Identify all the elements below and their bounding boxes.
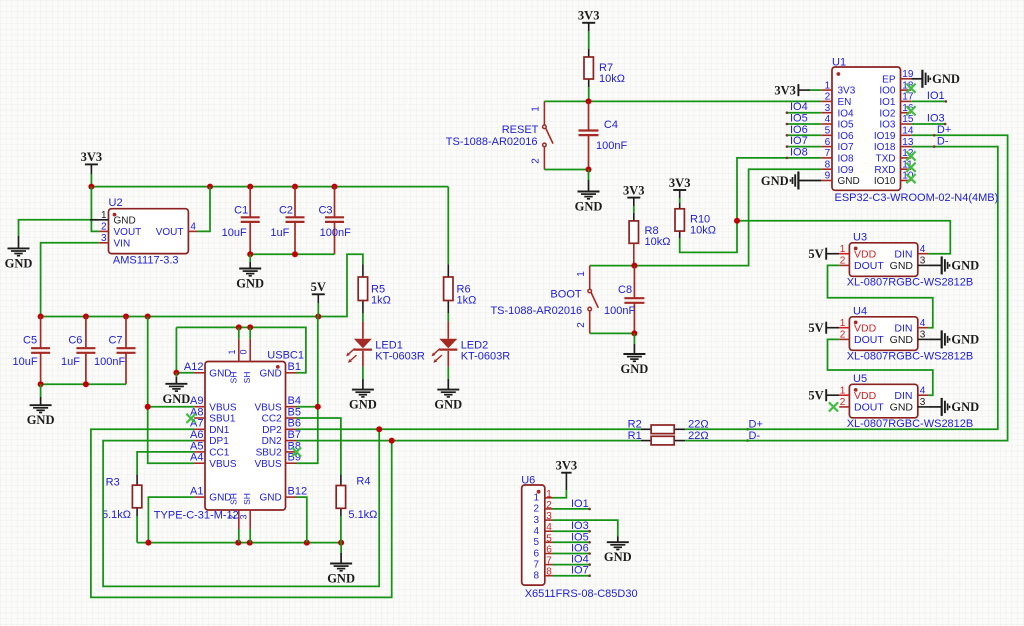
ground GND (C5)	[40, 384, 42, 397]
wire D+ from R2 to U1 IO19	[685, 147, 998, 430]
wire IO9/BOOT net	[634, 169, 821, 265]
svg-text:IO1: IO1	[927, 90, 945, 102]
svg-text:IO5: IO5	[571, 531, 589, 543]
svg-text:2: 2	[840, 397, 846, 408]
wire D+ top segment	[911, 146, 998, 148]
net label IO3 (U6)	[553, 530, 590, 532]
svg-text:CC1: CC1	[209, 448, 229, 459]
wire R8 to BOOT node	[633, 251, 635, 266]
svg-text:GND: GND	[434, 398, 462, 412]
net label IO7	[787, 146, 821, 148]
svg-text:GND: GND	[27, 413, 55, 427]
svg-text:DN2: DN2	[262, 436, 282, 447]
svg-text:8: 8	[546, 567, 552, 578]
svg-text:A9: A9	[190, 395, 203, 407]
svg-text:5.1kΩ: 5.1kΩ	[102, 509, 131, 521]
svg-text:VBUS: VBUS	[209, 459, 237, 470]
svg-text:U3: U3	[853, 231, 867, 243]
wire U6 pin3 to GND	[553, 520, 618, 536]
svg-text:6: 6	[825, 137, 831, 148]
svg-text:DOUT: DOUT	[854, 260, 884, 272]
ground GND (U3)	[928, 264, 942, 266]
svg-text:BOOT: BOOT	[550, 289, 581, 301]
svg-text:4: 4	[920, 244, 926, 255]
ground GND (USB shield)	[340, 543, 342, 553]
svg-text:6: 6	[533, 548, 539, 559]
power flag 3V3 (regulator input rail)	[85, 163, 98, 165]
svg-text:R3: R3	[106, 477, 120, 489]
net label IO6	[787, 134, 821, 136]
ground GND (U6 pin3)	[617, 537, 619, 543]
ground GND (U2 pin1)	[18, 236, 20, 248]
svg-text:DIN: DIN	[894, 323, 912, 335]
wire 3V3 rail drop to R6	[447, 187, 449, 265]
svg-text:GND: GND	[327, 572, 355, 586]
power flag 3V3 (R10)	[673, 189, 686, 191]
wire VBUS riser right	[297, 317, 318, 464]
svg-text:VOUT: VOUT	[156, 227, 184, 238]
ground GND (U1 pin9)	[798, 180, 821, 182]
svg-text:B4: B4	[288, 395, 301, 407]
node junction EN/RESET	[586, 98, 592, 104]
ground GND (U5)	[928, 406, 942, 408]
net label D- (U1)	[933, 145, 936, 148]
no-connect X A8	[186, 414, 195, 423]
wire A12 gnd riser	[176, 327, 194, 372]
power flag 5V (U4)	[825, 322, 827, 334]
svg-text:SBU2: SBU2	[256, 448, 283, 459]
svg-text:DIN: DIN	[894, 390, 912, 402]
ground GND (USB A12)	[175, 373, 177, 377]
node junction C4 bottom	[586, 167, 592, 173]
svg-text:U1: U1	[832, 57, 846, 69]
svg-text:B7: B7	[288, 429, 301, 441]
svg-text:DP2: DP2	[262, 425, 282, 436]
svg-text:DP1: DP1	[209, 436, 229, 447]
svg-text:A6: A6	[190, 429, 203, 441]
wire U3 DOUT to U4 DIN	[828, 265, 933, 327]
wire A9 VBUS	[148, 406, 194, 408]
resistor R7 10k	[588, 49, 590, 57]
wire BOOT sw bottom	[590, 332, 635, 334]
svg-text:TS-1088-AR02016: TS-1088-AR02016	[446, 136, 538, 148]
svg-text:VDD: VDD	[854, 390, 877, 402]
capacitor C8 100nF	[633, 266, 635, 299]
wire R6 bottom	[447, 313, 449, 322]
svg-text:IO8: IO8	[838, 154, 855, 165]
ground GND (LED1)	[362, 367, 364, 379]
resistor R4 5.1k	[340, 474, 342, 485]
svg-text:TXD: TXD	[876, 154, 896, 165]
svg-text:C2: C2	[279, 205, 293, 217]
node junction 5V rail	[38, 314, 44, 320]
svg-text:2: 2	[840, 256, 846, 267]
wire R10 to IO8 net	[680, 158, 822, 253]
svg-text:1: 1	[546, 489, 552, 500]
svg-text:IO1: IO1	[879, 97, 896, 108]
wire U2 VOUT riser	[198, 187, 211, 232]
svg-text:C3: C3	[318, 205, 332, 217]
svg-text:IO7: IO7	[571, 565, 589, 577]
svg-text:IO0: IO0	[879, 86, 896, 97]
svg-text:IO18: IO18	[874, 142, 896, 153]
net label IO7 (U6)	[553, 575, 590, 577]
net label IO5	[787, 123, 821, 125]
wire EN net to U1	[589, 100, 822, 102]
svg-text:2: 2	[533, 504, 539, 515]
svg-text:SH: SH	[229, 493, 239, 505]
svg-text:C6: C6	[68, 335, 82, 347]
svg-text:CC2: CC2	[262, 414, 282, 425]
regulator U2 AMS1117-3.3	[109, 209, 189, 254]
svg-text:10kΩ: 10kΩ	[599, 73, 625, 85]
capacitor C4 100nF	[588, 101, 590, 130]
power flag 5V (main)	[312, 293, 325, 295]
net label IO6 (U6)	[553, 553, 590, 555]
node junction C5-C7 gnd rail	[38, 381, 44, 387]
svg-text:IO9: IO9	[838, 165, 855, 176]
svg-text:B1: B1	[288, 361, 301, 373]
ground GND (U1 EP)	[911, 78, 922, 80]
wire B5 CC2 to R4	[297, 418, 341, 474]
wire A5 CC1 to R3	[137, 452, 194, 475]
svg-text:4: 4	[533, 526, 539, 537]
svg-text:ESP32-C3-WROOM-02-N4(4MB): ESP32-C3-WROOM-02-N4(4MB)	[835, 192, 999, 204]
svg-text:7: 7	[825, 148, 831, 159]
wire D- from R1 to U1 IO18	[685, 135, 1007, 440]
svg-text:D+: D+	[937, 124, 951, 136]
svg-text:R1: R1	[628, 430, 642, 442]
svg-text:100nF: 100nF	[596, 140, 627, 152]
svg-text:3V3: 3V3	[669, 176, 691, 190]
svg-text:VOUT: VOUT	[114, 227, 142, 238]
svg-text:VBUS: VBUS	[209, 402, 237, 413]
net label IO1	[911, 100, 946, 102]
wire U2 pin1 to GND	[19, 220, 98, 236]
svg-text:DOUT: DOUT	[854, 334, 884, 346]
resistor R10 10k	[679, 203, 681, 209]
svg-text:3V3: 3V3	[578, 9, 600, 23]
svg-text:9: 9	[825, 171, 831, 182]
svg-text:GND: GND	[951, 333, 979, 347]
svg-text:4: 4	[546, 522, 552, 533]
wire RESET sw top	[544, 100, 588, 102]
svg-text:XL-0807RGBC-WS2812B: XL-0807RGBC-WS2812B	[847, 277, 974, 289]
svg-text:1: 1	[576, 271, 587, 277]
svg-text:3: 3	[239, 514, 249, 519]
svg-text:3V3: 3V3	[623, 183, 645, 197]
svg-text:A4: A4	[190, 452, 203, 464]
power flag 3V3 (R7)	[582, 22, 595, 24]
svg-text:IO3: IO3	[879, 120, 896, 131]
net label IO8	[786, 157, 789, 160]
svg-text:XL-0807RGBC-WS2812B: XL-0807RGBC-WS2812B	[847, 418, 974, 430]
svg-text:2: 2	[825, 92, 831, 103]
svg-text:2: 2	[101, 222, 107, 233]
svg-text:GND: GND	[932, 72, 960, 86]
net label D+ (U1)	[933, 134, 936, 137]
svg-text:5: 5	[533, 537, 539, 548]
wire B12 gnd drop	[297, 497, 307, 542]
svg-text:IO7: IO7	[790, 135, 808, 147]
svg-text:IO8: IO8	[790, 146, 808, 158]
svg-text:GND: GND	[114, 215, 136, 226]
svg-text:1: 1	[825, 80, 831, 91]
svg-text:GND: GND	[259, 493, 281, 504]
svg-text:DN1: DN1	[209, 425, 229, 436]
svg-text:1: 1	[840, 318, 846, 329]
wire VBUS riser left	[148, 317, 194, 464]
svg-text:U4: U4	[853, 305, 867, 317]
svg-text:5: 5	[825, 126, 831, 137]
no-connect X U5 DOUT	[829, 402, 838, 411]
svg-text:TYPE-C-31-M-12: TYPE-C-31-M-12	[154, 510, 239, 522]
wire R5 bottom	[362, 313, 364, 322]
svg-text:1: 1	[840, 385, 846, 396]
resistor R3 5.1k	[136, 474, 138, 485]
svg-text:3: 3	[101, 233, 107, 244]
svg-text:GND: GND	[621, 362, 649, 376]
no-connect X U1 pins	[906, 84, 915, 93]
svg-text:4: 4	[825, 114, 831, 125]
node junction shield pins	[236, 324, 242, 330]
svg-text:SH: SH	[229, 372, 239, 384]
wire B6 DP2 to R2	[297, 428, 641, 430]
svg-text:1: 1	[227, 349, 237, 354]
node junction A12	[173, 370, 179, 376]
svg-text:IO3: IO3	[927, 112, 945, 124]
svg-text:GND: GND	[604, 550, 632, 564]
svg-text:AMS1117-3.3: AMS1117-3.3	[113, 255, 179, 267]
svg-text:3: 3	[546, 511, 552, 522]
svg-text:IO10: IO10	[874, 176, 896, 187]
svg-text:5V: 5V	[808, 388, 823, 402]
svg-text:0: 0	[239, 349, 249, 354]
svg-text:1: 1	[533, 493, 539, 504]
node junction gnd rail	[145, 540, 151, 546]
wire A6 DP1 loop	[103, 429, 379, 586]
node junction DN	[389, 438, 395, 444]
wire BOOT sw top	[590, 265, 635, 267]
wire gnd rail under USB	[137, 542, 341, 544]
svg-text:GND: GND	[575, 200, 603, 214]
power flag 3V3 (R8)	[627, 197, 640, 199]
node junction IO8/DIN	[734, 218, 740, 224]
svg-text:IO7: IO7	[838, 142, 855, 153]
svg-text:4: 4	[920, 385, 926, 396]
svg-text:4: 4	[920, 318, 926, 329]
svg-text:13: 13	[902, 137, 914, 148]
svg-text:EP: EP	[882, 74, 896, 85]
svg-text:3V3: 3V3	[838, 86, 856, 97]
resistor R2 22R	[641, 428, 651, 430]
svg-text:C5: C5	[23, 335, 37, 347]
net label IO5 (U6)	[553, 541, 590, 543]
svg-text:100nF: 100nF	[320, 227, 351, 239]
ground GND (C8)	[633, 333, 635, 344]
svg-text:DOUT: DOUT	[854, 402, 884, 414]
svg-text:GND: GND	[890, 334, 914, 346]
svg-text:A1: A1	[190, 486, 203, 498]
svg-text:VBUS: VBUS	[254, 459, 282, 470]
svg-text:5.1kΩ: 5.1kΩ	[348, 509, 377, 521]
svg-text:X6511FRS-08-C85D30: X6511FRS-08-C85D30	[525, 588, 638, 600]
svg-text:5: 5	[546, 533, 552, 544]
svg-text:2: 2	[531, 158, 542, 164]
svg-text:VDD: VDD	[854, 323, 877, 335]
svg-text:1uF: 1uF	[270, 227, 289, 239]
svg-text:10uF: 10uF	[222, 227, 247, 239]
capacitor C2	[294, 187, 296, 218]
ground GND (U4)	[928, 338, 942, 340]
wire R7 to EN node	[588, 87, 590, 101]
pushbutton RESET TS-1088-AR02016	[543, 101, 545, 124]
svg-text:1uF: 1uF	[61, 356, 80, 368]
svg-text:14: 14	[902, 126, 914, 137]
svg-text:SH: SH	[242, 372, 252, 384]
svg-text:IO2: IO2	[879, 108, 896, 119]
svg-text:8: 8	[533, 571, 539, 582]
svg-text:GND: GND	[236, 277, 264, 291]
svg-text:1: 1	[101, 210, 107, 221]
svg-text:3V3: 3V3	[556, 459, 578, 473]
svg-text:3: 3	[920, 256, 926, 267]
svg-text:10uF: 10uF	[13, 356, 38, 368]
svg-text:GND: GND	[951, 400, 979, 414]
svg-text:IO1: IO1	[571, 498, 589, 510]
no-connect X B8	[292, 447, 301, 456]
svg-text:EN: EN	[838, 97, 852, 108]
svg-text:4: 4	[190, 222, 196, 233]
resistor R6 1k	[447, 265, 449, 278]
svg-text:100nF: 100nF	[94, 356, 125, 368]
wire U6 pin1 to 3V3	[553, 490, 567, 498]
svg-text:GND: GND	[349, 398, 377, 412]
svg-text:1: 1	[840, 244, 846, 255]
IC U1 ESP32-C3-WROOM-02-N4(4MB)	[832, 67, 901, 190]
svg-text:GND: GND	[890, 402, 914, 414]
wire C5-C7 gnd rail	[41, 383, 126, 385]
svg-text:10kΩ: 10kΩ	[645, 236, 671, 248]
power flag 3V3 (U6)	[561, 472, 571, 474]
svg-text:GND: GND	[890, 260, 914, 272]
wire R4 to gnd rail	[340, 516, 342, 543]
power flag 5V (U3)	[825, 248, 827, 260]
svg-text:A12: A12	[184, 361, 204, 373]
svg-text:B12: B12	[288, 486, 308, 498]
svg-text:TS-1088-AR02016: TS-1088-AR02016	[490, 305, 582, 317]
svg-text:3: 3	[533, 515, 539, 526]
svg-text:VBUS: VBUS	[254, 402, 282, 413]
svg-text:IO19: IO19	[874, 131, 896, 142]
node junction A9	[145, 404, 151, 410]
wire R3 to gnd rail	[136, 516, 138, 543]
node junction BOOT	[631, 263, 637, 269]
svg-text:8: 8	[825, 159, 831, 170]
svg-text:6: 6	[546, 545, 552, 556]
node junction 3V3 rail	[88, 184, 94, 190]
LED driver U5 XL-0807RGBC-WS2812B	[849, 384, 917, 418]
svg-text:5V: 5V	[311, 280, 326, 294]
svg-text:10kΩ: 10kΩ	[690, 224, 716, 236]
resistor R1 22R	[641, 440, 651, 442]
svg-text:U2: U2	[109, 197, 123, 209]
svg-text:KT-0603R: KT-0603R	[461, 350, 511, 362]
wire B4 VBUS	[297, 406, 318, 408]
svg-text:DIN: DIN	[894, 249, 912, 261]
net label IO4 (U6)	[553, 564, 590, 566]
ground GND (C4)	[588, 170, 590, 181]
svg-text:D-: D-	[937, 135, 949, 147]
svg-text:IO6: IO6	[838, 131, 855, 142]
wire 3V3 rail	[91, 186, 448, 188]
wire 5V rail	[41, 254, 363, 316]
LED LED2 KT-0603R	[447, 322, 449, 339]
power flag 3V3 (U1 pin1)	[797, 84, 799, 96]
svg-text:RESET: RESET	[502, 124, 539, 136]
svg-text:7: 7	[533, 559, 539, 570]
svg-text:3: 3	[920, 397, 926, 408]
svg-text:XL-0807RGBC-WS2812B: XL-0807RGBC-WS2812B	[847, 351, 974, 363]
svg-text:7: 7	[546, 556, 552, 567]
svg-text:IO4: IO4	[838, 108, 855, 119]
pushbutton BOOT TS-1088-AR02016	[589, 266, 591, 289]
svg-text:3: 3	[825, 103, 831, 114]
svg-text:C7: C7	[108, 335, 122, 347]
net label IO4	[787, 112, 821, 114]
svg-text:RXD: RXD	[874, 165, 895, 176]
capacitor C7	[125, 317, 127, 349]
ground GND (C1-C3)	[249, 254, 251, 262]
resistor R5 1k	[362, 265, 364, 278]
LED LED1 KT-0603R	[362, 322, 364, 339]
svg-text:GND: GND	[259, 368, 281, 379]
svg-text:3V3: 3V3	[774, 83, 796, 97]
svg-text:GND: GND	[5, 256, 33, 270]
connector U6 X6511FRS-08-C85D30	[522, 485, 545, 585]
node junction B4	[315, 404, 321, 410]
svg-text:SBU1: SBU1	[209, 414, 236, 425]
svg-text:SH: SH	[242, 493, 252, 505]
power flag 5V (U5)	[825, 389, 827, 401]
svg-text:5V: 5V	[808, 247, 823, 261]
wire cap gnd rail	[250, 253, 334, 255]
svg-text:GND: GND	[761, 174, 789, 188]
net label IO1 (U6)	[553, 508, 590, 510]
svg-text:GND: GND	[838, 176, 860, 187]
svg-text:2: 2	[840, 330, 846, 341]
svg-text:5V: 5V	[808, 321, 823, 335]
capacitor C1	[249, 187, 251, 218]
svg-text:USBC1: USBC1	[267, 349, 304, 361]
ground GND (LED2)	[447, 367, 449, 379]
svg-text:VDD: VDD	[854, 249, 877, 261]
svg-text:R2: R2	[628, 418, 642, 430]
svg-text:U6: U6	[521, 474, 535, 486]
wire A1 gnd drop	[148, 497, 194, 542]
svg-text:1: 1	[531, 106, 542, 112]
svg-text:C8: C8	[618, 284, 632, 296]
svg-text:2: 2	[546, 500, 552, 511]
svg-text:R4: R4	[356, 476, 370, 488]
svg-text:3V3: 3V3	[81, 150, 103, 164]
svg-text:2: 2	[576, 322, 587, 328]
LED driver U3 XL-0807RGBC-WS2812B	[849, 243, 917, 276]
svg-text:VIN: VIN	[114, 238, 131, 249]
svg-text:C1: C1	[234, 205, 248, 217]
svg-text:1kΩ: 1kΩ	[371, 294, 391, 306]
svg-text:U5: U5	[853, 373, 867, 385]
